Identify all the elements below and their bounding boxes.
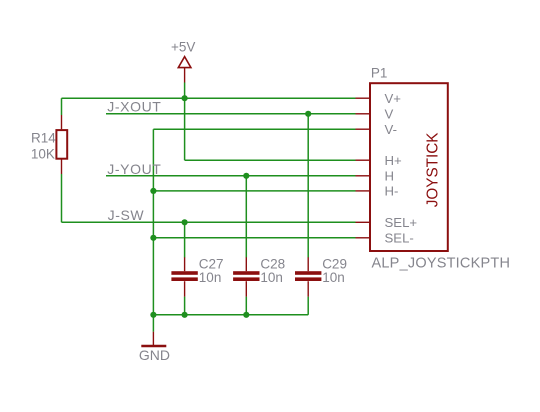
wire C28 bottom vertical: [245, 297, 247, 315]
svg-text:10n: 10n: [199, 270, 222, 285]
supply +5V triangle: [178, 57, 191, 68]
svg-text:SEL+: SEL+: [385, 215, 418, 230]
capacitor C28 bottom stub: [245, 281, 247, 296]
capacitor C27 top stub: [184, 257, 186, 271]
svg-text:ALP_JOYSTICKPTH: ALP_JOYSTICKPTH: [372, 255, 511, 271]
pin SEL+: [356, 221, 370, 223]
pin V+: [356, 97, 370, 99]
wire +5V rail row V+: [62, 97, 356, 99]
svg-text:H+: H+: [385, 153, 403, 168]
wire J-SW row SEL+: [62, 221, 356, 223]
svg-text:J-SW: J-SW: [108, 207, 145, 223]
svg-text:10K: 10K: [31, 146, 55, 161]
capacitor C27 plates: [171, 271, 197, 281]
wire C27 top vertical: [184, 222, 186, 257]
resistor R14 top stub: [61, 115, 63, 129]
wire +5V row H+: [185, 159, 356, 161]
junction C28 at H row: [243, 173, 249, 179]
wire R14 top vertical: [61, 98, 63, 115]
junction C29 at V row: [305, 111, 311, 117]
wire GND row H-: [153, 190, 355, 192]
pin V-: [356, 128, 370, 130]
resistor R14 body: [56, 130, 67, 159]
pin H-: [356, 190, 370, 192]
junction C27 at bottom rail: [182, 312, 188, 318]
supply +5V pin stub: [184, 68, 186, 83]
ground GND stub: [152, 332, 154, 346]
svg-text:J-XOUT: J-XOUT: [107, 99, 161, 115]
wire +5V vertical: [184, 83, 186, 161]
svg-text:V+: V+: [385, 91, 402, 106]
svg-text:H-: H-: [385, 184, 399, 199]
pin H+: [356, 159, 370, 161]
capacitor C29 bottom stub: [307, 281, 309, 296]
wire GND row SEL-: [153, 237, 355, 239]
capacitor C28 top stub: [245, 257, 247, 271]
wire C29 bottom vertical: [307, 297, 309, 315]
svg-text:JOYSTICK: JOYSTICK: [425, 132, 442, 208]
svg-text:V-: V-: [385, 122, 397, 137]
svg-text:R14: R14: [31, 131, 56, 146]
svg-text:GND: GND: [139, 347, 170, 363]
svg-text:10n: 10n: [260, 270, 283, 285]
pin V: [356, 113, 370, 115]
junction GND at SEL- row: [150, 235, 156, 241]
svg-text:J-YOUT: J-YOUT: [107, 161, 161, 177]
capacitor C27 bottom stub: [184, 281, 186, 296]
junction C28 at bottom rail: [243, 312, 249, 318]
pin H: [356, 175, 370, 177]
connector P1 box: [370, 83, 448, 251]
wire C28 top vertical: [245, 176, 247, 258]
capacitor C28 plates: [233, 271, 259, 281]
wire J-XOUT row V: [106, 113, 356, 115]
svg-text:SEL-: SEL-: [385, 231, 414, 246]
svg-text:P1: P1: [371, 65, 388, 80]
wire GND bottom rail: [153, 314, 308, 316]
svg-text:10n: 10n: [322, 270, 345, 285]
wire J-YOUT row H: [106, 175, 356, 177]
wire C29 top vertical: [307, 114, 309, 258]
resistor R14 bottom stub: [61, 160, 63, 175]
svg-text:V: V: [385, 107, 394, 122]
capacitor C29 top stub: [307, 257, 309, 271]
svg-text:H: H: [385, 169, 395, 184]
wire C27 bottom vertical: [184, 297, 186, 315]
capacitor C29 plates: [295, 271, 321, 281]
wire GND vertical: [152, 129, 154, 332]
svg-text:+5V: +5V: [171, 39, 195, 54]
pin SEL-: [356, 237, 370, 239]
junction C27 at SEL+ row: [182, 219, 188, 225]
wire GND row V-: [153, 128, 355, 130]
junction +5V at V+ row: [182, 95, 188, 101]
wire R14 bottom vertical: [61, 174, 63, 222]
junction GND at H- row: [150, 188, 156, 194]
ground GND bar: [141, 345, 166, 348]
junction GND at bottom rail: [150, 312, 156, 318]
